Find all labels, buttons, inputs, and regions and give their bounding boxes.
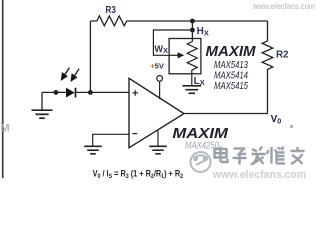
- wire: op-amp output to R2 bottom: [184, 113, 268, 115]
- wire: Lx to ground: [191, 74, 193, 86]
- svg-text:HX: HX: [197, 26, 209, 37]
- wire: op-amp V+ pin: [159, 81, 161, 99]
- svg-text:R2: R2: [276, 49, 289, 61]
- node: feedback junction dot: [88, 90, 93, 95]
- svg-text:www.elecfans.com: www.elecfans.com: [212, 169, 306, 181]
- photodiode D1: [66, 88, 75, 98]
- svg-text:+5V: +5V: [150, 61, 165, 70]
- figure border (left edge line): [2, 0, 4, 178]
- svg-text:M: M: [1, 123, 10, 135]
- op-amp + input marking: [132, 90, 138, 96]
- svg-text:R3: R3: [106, 5, 117, 16]
- watermark: CJK characters: [215, 147, 305, 165]
- wiper arrow: [169, 54, 178, 56]
- wire: anode to ground: [41, 92, 43, 110]
- ground (inverting input): [84, 146, 102, 154]
- resistor R3: [90, 16, 126, 26]
- wire: R3 output to R2 top (top rail): [127, 20, 268, 22]
- digital potentiometer U1 box: [169, 39, 201, 74]
- watermark speck: [290, 125, 293, 128]
- wire: drop from top rail to potentiometer Hx: [191, 21, 193, 42]
- char 4: [267, 147, 285, 164]
- wire: op-amp V- pin to ground: [157, 130, 159, 146]
- ground (photodiode anode): [32, 110, 53, 118]
- char 3: [251, 147, 266, 165]
- wire: - input to ground: [93, 134, 129, 146]
- svg-text:MAX5415: MAX5415: [214, 80, 248, 92]
- node: anode dot: [54, 90, 59, 95]
- +5V supply terminal: [157, 76, 163, 82]
- svg-text:MAXIM: MAXIM: [206, 44, 257, 60]
- node Hx junction dot: [190, 28, 195, 33]
- op-amp U2: [129, 78, 184, 148]
- wire: photodiode to + input: [76, 91, 130, 93]
- wire: feedback drop from R3 left to op-amp + input: [89, 21, 91, 92]
- op-amp - input marking: [132, 133, 137, 135]
- svg-text:V0 / IS = R3 (1 + R2/R1) + R2: V0 / IS = R3 (1 + R2/R1) + R2: [93, 169, 184, 180]
- wire: Hx-to-wiper loop: [153, 30, 192, 55]
- svg-text:www.elecfans.com: www.elecfans.com: [252, 2, 315, 11]
- stray mark: [36, 113, 38, 115]
- char 5: [291, 147, 305, 164]
- watermark: phone logo: [191, 152, 211, 172]
- wire: anode rail: [42, 91, 66, 93]
- ground (potentiometer Lx): [182, 86, 201, 94]
- char 1: [215, 149, 227, 158]
- photodiode light arrows: [62, 68, 80, 81]
- ground (op-amp negative supply): [149, 146, 167, 154]
- node: junction dot on top rail at Hx column: [190, 19, 195, 24]
- char 2: [234, 147, 246, 149]
- potentiometer resistor element: [187, 42, 197, 74]
- resistor R2: [262, 21, 273, 114]
